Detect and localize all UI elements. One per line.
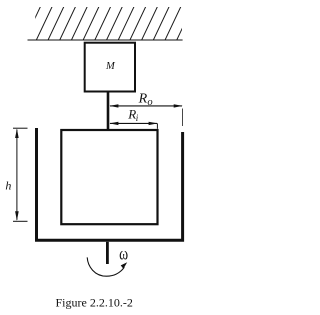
svg-text:o: o (147, 97, 152, 108)
svg-text:i: i (136, 113, 139, 123)
svg-text:h: h (5, 179, 11, 193)
svg-text:M: M (105, 61, 116, 72)
svg-text:R: R (138, 92, 148, 107)
svg-text:Figure 2.2.10.-2: Figure 2.2.10.-2 (56, 295, 133, 309)
svg-text:ω: ω (119, 244, 128, 264)
